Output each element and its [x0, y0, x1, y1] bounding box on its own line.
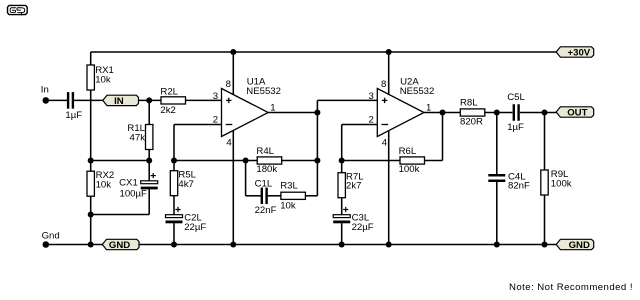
resistor R8L: [460, 109, 485, 116]
wire R9L top lead: [544, 113, 546, 171]
wire U1A pin 8 to rail: [232, 52, 234, 95]
svg-text:4k7: 4k7: [178, 179, 193, 190]
svg-text:IN: IN: [114, 96, 124, 107]
node tag OUT output node: [556, 107, 594, 119]
wire input row down to R1L: [148, 100, 150, 124]
junction C4L on ground rail: [494, 242, 500, 248]
label R4L value 180k: [256, 146, 277, 175]
junction U2A pin 4 on ground rail: [386, 242, 392, 248]
capacitor C3L (polarized): [333, 215, 350, 224]
svg-text:GND: GND: [569, 240, 590, 251]
resistor R7L: [338, 173, 345, 198]
label U2A NE5532: [400, 77, 435, 97]
label R6L value 100k: [399, 146, 420, 175]
svg-text:R4L: R4L: [256, 146, 274, 157]
resistor R1L: [146, 125, 153, 150]
wire C2L bottom to ground rail: [173, 223, 175, 244]
wire R3L to output column: [305, 195, 317, 197]
svg-text:1: 1: [270, 102, 275, 113]
capacitor C5L: [513, 104, 520, 121]
label C4L value 82nF: [508, 171, 530, 191]
junction U1A feedback node: [171, 158, 177, 164]
wire U1A output column: [316, 100, 318, 195]
note text: [509, 282, 633, 293]
label C2L value 22µF: [184, 212, 206, 233]
pin 8 label of U2A: [381, 79, 386, 90]
svg-text:CX1: CX1: [119, 177, 138, 188]
svg-text:R8L: R8L: [460, 98, 478, 109]
resistor RX2: [87, 171, 94, 196]
wire feedback node down to R5L: [173, 161, 175, 171]
label R7L value 2k7: [346, 171, 364, 191]
svg-text:10k: 10k: [280, 201, 296, 212]
polarity + of CX1: [151, 173, 156, 178]
wire U2A pin 4 to ground rail: [388, 131, 390, 245]
label R8L value 820R: [460, 98, 483, 128]
wire RX1 bottom through input row to RX2: [90, 90, 92, 171]
svg-text:100k: 100k: [399, 164, 420, 175]
wire In terminal to C-in: [46, 99, 67, 101]
svg-text:10k: 10k: [95, 75, 111, 86]
wire R8L to C5L: [485, 112, 513, 114]
wire C5L to OUT tag: [520, 112, 557, 114]
svg-text:NE5532: NE5532: [400, 86, 435, 97]
op-amp U2A NE5532: [377, 89, 424, 137]
node Gnd input terminal: [42, 230, 60, 248]
svg-text:Gnd: Gnd: [42, 230, 60, 241]
wire bias branch to CX1 top: [148, 161, 150, 182]
op-amp U1A NE5532: [222, 89, 269, 137]
resistor R5L: [170, 171, 177, 196]
svg-text:820R: 820R: [460, 117, 483, 128]
pin 2 label of U2A: [369, 114, 374, 125]
op-amp U1A + input marker: [226, 98, 231, 103]
pin 8 label of U1A: [226, 79, 231, 90]
wire R9L bottom lead to ground rail: [544, 195, 546, 244]
op-amp U2A - input marker: [382, 124, 389, 126]
wire +30V rail: [91, 51, 558, 53]
polarity + of C2L: [175, 207, 180, 212]
junction R1L bottom / CX1 top: [146, 158, 152, 164]
wire feedback row to R4L: [174, 160, 257, 162]
junction C2L on ground rail: [171, 242, 177, 248]
wire C1L branch drop: [245, 161, 247, 196]
node tag GND node left: [102, 239, 139, 251]
junction U1A pin 8 on +30V rail: [230, 49, 236, 55]
svg-text:4: 4: [382, 138, 388, 149]
junction U2A output: [440, 110, 446, 116]
svg-text:C1L: C1L: [255, 178, 273, 189]
wire U2A pin 2 drop to feedback node: [341, 125, 343, 161]
pin 1 label of U1A: [270, 102, 275, 113]
svg-text:10k: 10k: [96, 180, 112, 191]
svg-text:2k2: 2k2: [160, 105, 175, 116]
svg-text:100k: 100k: [551, 178, 572, 189]
resistor RX1: [87, 65, 94, 90]
svg-text:82nF: 82nF: [508, 181, 530, 192]
wire U2A pin 8 to rail: [388, 52, 390, 95]
wire Gnd terminal to GND tag: [46, 244, 103, 246]
junction R4L right on output column: [314, 158, 320, 164]
pin 3 label of U1A: [213, 91, 218, 102]
junction C4L tap: [494, 110, 500, 116]
capacitor C1L: [261, 188, 268, 205]
resistor R9L: [541, 170, 548, 195]
svg-text:8: 8: [226, 79, 231, 90]
svg-text:1: 1: [426, 102, 431, 113]
wire output drop to U2A output: [442, 113, 444, 161]
junction U2A feedback node: [339, 158, 345, 164]
junction bias column on ground rail: [88, 242, 94, 248]
wire U1A pin 2 stub: [174, 124, 222, 126]
svg-text:R2L: R2L: [160, 87, 178, 98]
wire C1L to R3L: [267, 195, 281, 197]
label RX1 value 10k: [95, 65, 114, 85]
junction U1A pin 4 on ground rail: [230, 242, 236, 248]
label R5L value 4k7: [178, 170, 196, 190]
wire CX1 bottom to bias column: [91, 214, 150, 216]
wire pin 2 drop to feedback row: [173, 125, 175, 161]
node In input terminal: [41, 84, 49, 103]
wire C3L bottom to ground rail: [341, 223, 343, 244]
svg-text:R3L: R3L: [280, 181, 298, 192]
capacitor C2L (polarized): [166, 215, 183, 224]
wire RX2 bottom to ground rail: [90, 196, 92, 244]
junction CX1 return on bias column: [88, 212, 94, 218]
junction U2A pin 8 on +30V rail: [386, 49, 392, 55]
label RX2 value 10k: [96, 170, 115, 190]
resistor R6L: [400, 157, 425, 164]
wire U2A feedback row to R6L: [342, 160, 400, 162]
label C-in value 1µF: [65, 110, 82, 121]
wire R6L to output drop: [425, 160, 443, 162]
node tag IN input node: [103, 95, 139, 107]
svg-text:22µF: 22µF: [184, 222, 206, 233]
svg-text:22µF: 22µF: [352, 222, 374, 233]
wire R5L bottom to C2L: [173, 196, 175, 215]
node tag +30V supply: [556, 47, 594, 59]
wire U1A output to column: [268, 112, 317, 114]
svg-text:3: 3: [213, 91, 218, 102]
pin 1 label of U2A: [426, 102, 431, 113]
resistor R3L: [281, 192, 306, 199]
label CX1 value 100µF: [119, 177, 147, 199]
svg-text:In: In: [41, 84, 49, 95]
wire R2L to U1A pin 3: [186, 99, 222, 101]
svg-text:3: 3: [369, 91, 374, 102]
label R9L value 100k: [551, 169, 572, 189]
pin 2 label of U1A: [213, 114, 218, 125]
svg-text:8: 8: [381, 79, 386, 90]
svg-text:1µF: 1µF: [507, 122, 524, 133]
capacitor C4L: [488, 174, 505, 182]
wire U2A pin 2 stub: [342, 124, 378, 126]
resistor R4L: [257, 157, 282, 164]
wire IN tag to R2L: [139, 99, 162, 101]
junction R1L tap on input row: [146, 97, 152, 103]
svg-text:180k: 180k: [256, 164, 277, 175]
node tag GND node right: [556, 239, 594, 251]
wire ground rail: [139, 244, 557, 246]
junction C3L on ground rail: [339, 242, 345, 248]
wire R7L top lead: [341, 161, 343, 173]
junction R9L on ground rail: [542, 242, 548, 248]
label C3L value 22µF: [352, 212, 374, 233]
svg-text:2k7: 2k7: [346, 181, 361, 192]
label C5L value 1µF: [507, 92, 525, 133]
svg-text:OUT: OUT: [567, 108, 587, 119]
svg-text:R6L: R6L: [399, 146, 417, 157]
svg-text:Note: Not Recommended !: Note: Not Recommended !: [509, 282, 633, 293]
wire R4L to output column: [282, 160, 318, 162]
wire R7L bottom to C3L: [341, 198, 343, 215]
label R3L value 10k: [280, 181, 298, 212]
wire C4L bottom lead to ground rail: [496, 182, 498, 245]
svg-text:+30V: +30V: [568, 48, 591, 59]
resistor R2L: [161, 97, 186, 104]
wire U1A pin 4 to ground rail: [232, 131, 234, 245]
pin 4 label of U2A: [382, 138, 388, 149]
label R1L value 47k: [127, 123, 145, 143]
polarity + of C3L: [343, 207, 348, 212]
junction R9L tap: [542, 110, 548, 116]
svg-text:22nF: 22nF: [255, 205, 277, 216]
svg-text:NE5532: NE5532: [246, 86, 281, 97]
op-amp U1A - input marker: [226, 124, 233, 126]
wire rail corner down to RX1: [90, 52, 92, 65]
wire C4L top lead: [496, 113, 498, 175]
junction bias node branch: [88, 158, 94, 164]
wire CX1 bottom plate to return wire: [148, 189, 150, 214]
wire C-in to IN tag: [74, 99, 103, 101]
svg-text:4: 4: [226, 138, 232, 149]
wire C1L branch to C1L: [246, 195, 261, 197]
wire R1L bottom to bias branch: [148, 150, 150, 161]
label U1A NE5532: [246, 77, 281, 97]
capacitor C-in 1uF input coupling: [67, 92, 74, 109]
pin 4 label of U1A: [226, 138, 232, 149]
junction U1A output: [314, 110, 320, 116]
wire U2A output to R8L: [424, 112, 460, 114]
svg-text:C5L: C5L: [507, 92, 525, 103]
svg-text:47k: 47k: [130, 133, 146, 144]
svg-text:100µF: 100µF: [119, 188, 147, 199]
svg-text:GND: GND: [109, 240, 130, 251]
pin 3 label of U2A: [369, 91, 374, 102]
label C1L value 22nF: [255, 178, 277, 216]
junction C1L branch: [243, 158, 249, 164]
capacitor CX1 (polarized): [141, 181, 158, 190]
wire U1A output to U2A pin 3: [317, 99, 377, 101]
label R2L value 2k2: [160, 87, 178, 117]
ESP logo: [8, 5, 28, 15]
svg-text:1µF: 1µF: [65, 110, 82, 121]
op-amp U2A + input marker: [382, 98, 387, 103]
wire bias node to R1L/CX1 column: [91, 160, 150, 162]
